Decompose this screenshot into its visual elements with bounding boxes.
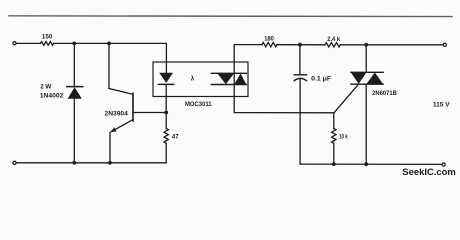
node: capacitor top junction xyxy=(298,43,302,47)
node: R10k bottom junction xyxy=(332,162,336,166)
terminal T1 (AC hot input, top left) xyxy=(13,42,16,45)
wire: capacitor bottom to rail corner xyxy=(299,79,301,164)
svg-text:2N6071B: 2N6071B xyxy=(372,91,397,97)
resistor 47 xyxy=(164,113,179,144)
wire: collector junction down xyxy=(108,43,110,88)
capacitor C1 0.1uF xyxy=(294,45,331,83)
wire: photo-triac main line, top rail corner down through box to gate run xyxy=(234,45,334,113)
transistor Q1 2N3904 xyxy=(105,89,134,133)
svg-text:0.1 μF: 0.1 μF xyxy=(311,75,331,82)
node: base / R47 / LED cathode junction xyxy=(164,111,168,115)
photo-triac inside MOC3011 xyxy=(211,73,246,84)
resistor 2.4k xyxy=(325,36,341,47)
wire: R10k to bottom rail xyxy=(333,143,335,164)
wire: diode anode to bottom rail xyxy=(73,99,75,163)
svg-text:47: 47 xyxy=(172,134,179,141)
wire bottom-right rail xyxy=(300,163,442,165)
svg-text:SeekIC.com: SeekIC.com xyxy=(402,166,456,177)
wire: R2.4k to right terminal xyxy=(340,44,443,46)
svg-text:2N3904: 2N3904 xyxy=(105,110,129,117)
terminal T4 (neutral, bottom right) xyxy=(442,163,445,166)
wire top-right rail: corner to R180 xyxy=(234,44,262,46)
LED inside MOC3011 xyxy=(159,73,174,85)
svg-text:180: 180 xyxy=(264,35,274,42)
wire: R47 to bottom-left rail xyxy=(165,143,167,163)
svg-text:115 V: 115 V xyxy=(433,102,450,109)
svg-text:1N4002: 1N4002 xyxy=(40,93,64,100)
terminal T3 (line, top right) xyxy=(443,43,446,46)
node: collector feed junction xyxy=(107,42,111,46)
optocoupler U1 MOC3011 package outline xyxy=(153,62,248,108)
wire: gate diagonal to triac xyxy=(334,85,358,113)
border top rule xyxy=(9,15,452,18)
wire bottom-left rail xyxy=(16,162,166,164)
wire: R180 to R2.4k xyxy=(277,44,325,46)
svg-text:2.4 k: 2.4 k xyxy=(327,36,341,43)
svg-text:10 k: 10 k xyxy=(339,134,348,141)
wire top-left rail: R150 to LED anode corner xyxy=(54,43,167,72)
wire top-left rail: terminal to R 150 xyxy=(16,42,40,44)
node: diode bottom junction xyxy=(72,161,76,165)
node: emitter bottom junction xyxy=(108,161,112,165)
resistor 150 xyxy=(41,34,54,46)
node: triac bottom junction xyxy=(364,162,368,166)
wire: base to R47 node xyxy=(133,112,166,114)
svg-text:λ: λ xyxy=(191,76,195,83)
svg-text:150: 150 xyxy=(42,34,53,41)
terminal T2 (AC return, bottom left) xyxy=(13,161,16,164)
diode 1N4002 2W xyxy=(40,83,83,99)
resistor 180 xyxy=(262,35,277,47)
wire: emitter to bottom rail xyxy=(109,132,111,162)
wire: triac MT1 down to bottom rail xyxy=(365,84,367,164)
svg-text:2 W: 2 W xyxy=(40,83,52,90)
triac Q2 2N6071B xyxy=(351,72,398,97)
wire: triac junction down to triac xyxy=(365,45,367,73)
svg-text:MOC3011: MOC3011 xyxy=(185,101,212,108)
wire: LED cathode down to base node xyxy=(165,84,167,112)
resistor 10k xyxy=(332,113,349,143)
node: triac top junction xyxy=(364,43,368,47)
wire: junction down to diode cathode xyxy=(73,43,75,86)
node: diode top junction xyxy=(72,42,76,46)
